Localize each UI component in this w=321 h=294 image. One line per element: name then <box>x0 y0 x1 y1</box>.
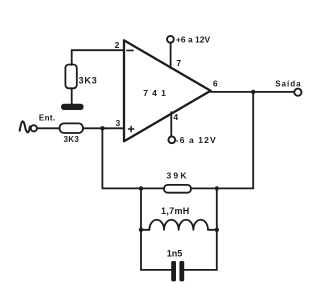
svg-text:3: 3 <box>115 118 120 128</box>
svg-text:+6 a 12V: +6 a 12V <box>176 34 211 44</box>
wire capacitor row left <box>141 269 171 271</box>
svg-text:7 4 1: 7 4 1 <box>143 88 166 98</box>
wire output drop to feedback row <box>252 92 254 188</box>
svg-text:6: 6 <box>213 79 218 89</box>
wire left branch vertical <box>140 188 142 270</box>
capacitor C1 right plate <box>179 261 184 281</box>
resistor R2 3K3 (horizontal) <box>60 123 83 133</box>
wire pin 2 horizontal <box>72 49 124 51</box>
node junction row1 left <box>139 186 143 190</box>
node junction row2 right <box>215 228 219 232</box>
V- terminal <box>168 136 175 143</box>
wire R2 to pin 3 <box>83 127 124 129</box>
node junction at pin 3 <box>100 126 104 130</box>
wire pin 7 to V+ <box>170 43 172 68</box>
wire feedback row left segment <box>102 187 164 189</box>
svg-text:1,7mH: 1,7mH <box>161 206 190 216</box>
svg-text:Saída: Saída <box>275 80 301 89</box>
wire capacitor row right <box>184 269 217 271</box>
wire right branch vertical <box>216 188 218 270</box>
V+ terminal <box>167 36 174 43</box>
svg-text:Ent.: Ent. <box>39 113 56 122</box>
svg-text:4: 4 <box>173 112 178 122</box>
svg-text:-6 a 12V: -6 a 12V <box>176 135 217 145</box>
op-amp plus sign <box>129 126 134 131</box>
wire R1 to ground <box>71 88 73 104</box>
svg-text:1n5: 1n5 <box>167 248 183 258</box>
op-amp U1 741 triangle <box>124 40 211 141</box>
node junction row2 left <box>139 228 143 232</box>
wire pin 6 output <box>211 91 295 93</box>
wire input terminal to R2 <box>37 127 59 129</box>
signal source sine symbol <box>20 121 30 132</box>
inductor L1 1,7mH <box>149 220 208 230</box>
node junction output <box>251 90 255 94</box>
wire pin 4 to V- <box>170 112 172 136</box>
input terminal Ent. <box>31 125 37 131</box>
wire left bus down from pin 3 node <box>101 128 103 188</box>
svg-text:7: 7 <box>176 58 181 68</box>
op-amp minus sign <box>127 49 133 51</box>
svg-text:3K3: 3K3 <box>79 76 98 86</box>
wire inductor row left stub <box>141 229 149 231</box>
svg-text:39K: 39K <box>166 171 188 181</box>
wire feedback row right segment <box>191 187 253 189</box>
svg-text:3K3: 3K3 <box>64 135 80 144</box>
resistor R3 39K <box>164 185 191 193</box>
resistor R1 3K3 (vertical) <box>65 65 76 89</box>
wire pin2 to resistor R1 <box>71 50 73 65</box>
wire inductor row right stub <box>208 229 217 231</box>
capacitor C1 left plate <box>171 261 176 281</box>
output terminal Saida <box>294 89 301 96</box>
svg-text:2: 2 <box>115 40 120 50</box>
node junction row1 right <box>215 186 219 190</box>
ground <box>61 104 84 110</box>
